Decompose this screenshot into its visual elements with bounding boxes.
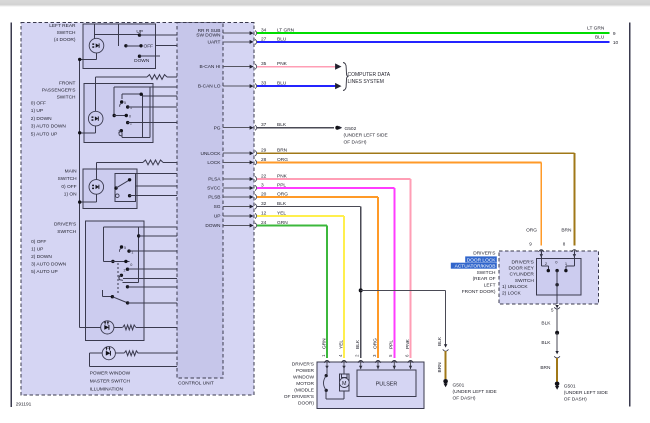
svg-text:1) UP: 1) UP: [31, 246, 43, 252]
wire pin line UP to control unit: [140, 34, 177, 36]
svg-text:LINES SYSTEM: LINES SYSTEM: [348, 79, 384, 85]
svg-text:ACTUATOR/KNOB: ACTUATOR/KNOB: [455, 264, 496, 270]
svg-text:DRIVER'S: DRIVER'S: [473, 250, 495, 256]
master switch common bus wire: [79, 59, 81, 327]
svg-text:DRIVER'S: DRIVER'S: [292, 362, 314, 368]
svg-text:BLK: BLK: [541, 340, 551, 346]
wire pin line drv 5 to control unit: [123, 277, 177, 279]
svg-text:DRIVER'S: DRIVER'S: [512, 259, 534, 265]
svg-text:SVCC: SVCC: [207, 186, 221, 192]
wire DOWN contact stub: [140, 55, 161, 57]
svg-text:0: 0: [130, 263, 132, 267]
svg-text:PG: PG: [214, 125, 221, 131]
wire pin line main 1 to control unit: [115, 173, 177, 175]
wire pin line drv 7 to control unit: [128, 302, 177, 304]
wire LED2 left return: [89, 353, 177, 366]
wire bus to LED1: [80, 326, 101, 328]
svg-text:YEL: YEL: [338, 340, 344, 349]
key cylinder contacts: [541, 251, 574, 304]
svg-text:2) DOWN: 2) DOWN: [31, 116, 52, 122]
wire transistor bottom lead: [96, 53, 98, 59]
node drv contact 2: [126, 268, 129, 271]
svg-text:LEFT REAR: LEFT REAR: [49, 23, 76, 29]
svg-text:BRN: BRN: [437, 362, 443, 373]
door lock actuator dashed box: [499, 251, 599, 304]
hook fp contact 3: [119, 131, 122, 137]
node fp contact 0: [125, 114, 128, 117]
pin 33 BLU B-CAN_LO: [198, 81, 287, 90]
wire YEL pin 12 UP: [257, 216, 344, 358]
svg-text:OF DASH): OF DASH): [344, 139, 367, 145]
wire transistor top lead main: [95, 162, 97, 179]
inner contact frame fp: [114, 87, 150, 137]
LED driver switch illumination: [101, 321, 114, 334]
svg-text:DOOR LOCK: DOOR LOCK: [467, 257, 497, 263]
hook drv contact 3: [119, 275, 123, 280]
connector pin 9 entry: [539, 250, 545, 258]
svg-text:0) OFF: 0) OFF: [61, 184, 76, 190]
label COMPUTER DATA LINES SYSTEM: [348, 72, 391, 85]
svg-text:BLK: BLK: [437, 336, 443, 346]
wire BRN right column: [556, 358, 558, 382]
svg-text:9: 9: [613, 31, 616, 37]
svg-text:COMPUTER DATA: COMPUTER DATA: [348, 72, 391, 78]
svg-text:MOTOR: MOTOR: [296, 381, 314, 387]
pulser unit: [357, 370, 416, 397]
node drv lower contact: [126, 301, 129, 304]
node drv contact 5: [120, 245, 123, 248]
node drv contact 1: [127, 249, 130, 252]
front passenger switch block: [84, 84, 153, 143]
right page border line: [629, 23, 631, 407]
ground G501 right: [555, 382, 560, 390]
svg-text:291191: 291191: [16, 402, 32, 408]
left rear switch block: [83, 24, 156, 68]
svg-text:0: 0: [129, 115, 131, 119]
svg-text:OF DRIVER'S: OF DRIVER'S: [284, 394, 314, 400]
svg-text:SWITCH: SWITCH: [57, 229, 76, 235]
wire pulser pin stubs: [16, 250, 608, 408]
node drv pivot: [111, 260, 114, 263]
svg-text:ORG: ORG: [372, 338, 378, 349]
wire pin4 inside motor block: [343, 367, 345, 375]
wire BLK splice to connector: [556, 333, 558, 353]
svg-text:PPL: PPL: [389, 340, 395, 349]
svg-text:UP: UP: [214, 214, 221, 220]
wire pin line OFF to control unit: [155, 44, 177, 46]
node UP contact: [138, 33, 141, 36]
transistor front passenger switch: [88, 111, 103, 126]
arrow B-CAN HI: [335, 63, 341, 69]
wire pin line drv 6 to control unit: [128, 286, 177, 288]
svg-text:2) LOCK: 2) LOCK: [502, 290, 521, 296]
wire BRN left column: [445, 351, 447, 379]
svg-text:1) UNLOCK: 1) UNLOCK: [502, 284, 528, 290]
svg-text:DOOR KEY: DOOR KEY: [508, 266, 534, 272]
svg-text:BLU: BLU: [595, 34, 605, 40]
wire ORG pin 20 PLSB: [257, 197, 378, 358]
wire pin line main 2 to control unit: [136, 185, 177, 187]
resistor main switch wire: [96, 160, 177, 165]
LED master switch illumination: [102, 347, 115, 360]
node main contact lower: [128, 194, 131, 197]
svg-text:BRN: BRN: [561, 227, 572, 233]
switch arm left rear: [126, 45, 141, 47]
svg-text:PASSENGER'S: PASSENGER'S: [42, 87, 76, 93]
resistor LED1: [114, 325, 177, 330]
inner rect B fp: [122, 94, 143, 137]
svg-text:DRIVER'S: DRIVER'S: [54, 222, 76, 228]
wire PPL pin 3 SVCC: [257, 188, 395, 358]
wire BRN pin 29 UNLOCK: [257, 153, 575, 245]
open contact main off: [116, 194, 120, 198]
wire transistor top lead: [94, 24, 96, 38]
node drv contact 3: [120, 274, 123, 277]
svg-text:SWITCH: SWITCH: [515, 278, 534, 284]
svg-text:POWER: POWER: [296, 368, 315, 374]
node fp contact 5: [120, 100, 123, 103]
transistor main switch: [89, 180, 104, 195]
svg-text:3) AUTO DOWN: 3) AUTO DOWN: [31, 124, 67, 130]
svg-text:G501: G501: [564, 383, 576, 389]
brace computer data lines: [343, 63, 349, 91]
svg-text:OF DASH): OF DASH): [564, 397, 587, 403]
wire pin line fp 4 to control unit: [128, 122, 177, 124]
svg-text:MAIN: MAIN: [65, 169, 78, 175]
svg-text:LEFT: LEFT: [484, 283, 496, 289]
svg-text:LOCK: LOCK: [207, 160, 221, 166]
svg-text:UP: UP: [136, 29, 143, 35]
svg-text:FRONT DOOR): FRONT DOOR): [462, 289, 496, 295]
switch arm main: [116, 180, 130, 188]
svg-text:(UNDER LEFT SIDE: (UNDER LEFT SIDE: [453, 389, 497, 395]
pin 12 YEL UP: [214, 210, 287, 219]
wire pin line drv 1 to control unit: [139, 226, 177, 228]
svg-text:BLK: BLK: [541, 320, 551, 326]
pin 24 GRN DOWN: [205, 220, 288, 229]
pin 29 BRN UNLOCK: [201, 148, 288, 157]
wire pin line fp 3 to control unit: [128, 106, 177, 108]
mechanical link dashed drv: [117, 263, 119, 295]
pin 37 BLK PG: [214, 122, 287, 131]
wire PNK pin 22 PLSA: [257, 179, 411, 358]
wire pin1 inside motor block: [326, 367, 344, 400]
control unit dashed box: [177, 23, 223, 379]
inner contact frame main: [115, 174, 136, 202]
svg-text:UNLOCK: UNLOCK: [201, 151, 222, 157]
pin 35 PNK B-CAN_HI: [199, 61, 287, 70]
wire BLK branch to G501 left: [361, 290, 446, 345]
wire to common bus fp: [80, 132, 96, 134]
wire BLK key cylinder to splice: [556, 309, 558, 333]
wire pin line fp 2 to control unit: [143, 95, 177, 97]
door key cylinder switch box: [536, 259, 581, 296]
svg-text:B-CAN HI: B-CAN HI: [199, 64, 220, 70]
motor M1: [339, 374, 349, 391]
node switch pivot: [124, 44, 127, 47]
label MAIN SWITCH 0) OFF 1) ON: [58, 169, 77, 198]
svg-text:SWITCH: SWITCH: [57, 94, 76, 100]
svg-text:MASTER SWITCH: MASTER SWITCH: [90, 378, 131, 384]
wire pin line drv 4 to control unit: [128, 268, 177, 270]
svg-text:M: M: [342, 381, 347, 387]
wire switch pivot feed: [118, 24, 120, 46]
label DRIVER'S SWITCH: [54, 222, 77, 236]
wire to common bus main: [80, 201, 97, 203]
svg-text:WINDOW: WINDOW: [293, 375, 315, 381]
svg-text:OF DASH): OF DASH): [453, 396, 476, 402]
svg-text:SWITCH: SWITCH: [58, 176, 77, 182]
left page border line: [10, 23, 12, 407]
inner contact frame driver: [104, 227, 139, 282]
node common bus junction main: [78, 200, 81, 203]
svg-text:CYLINDER: CYLINDER: [510, 272, 535, 278]
connector arrows into motor block: [324, 360, 413, 369]
svg-text:SWITCH: SWITCH: [477, 270, 496, 276]
node SG branch: [359, 288, 363, 292]
svg-text:(REAR OF: (REAR OF: [473, 276, 496, 282]
svg-text:(MIDDLE: (MIDDLE: [294, 388, 314, 394]
svg-text:DOWN: DOWN: [205, 223, 221, 229]
resistor LED2: [115, 351, 177, 356]
wire GRN pin 24 DOWN: [257, 226, 327, 359]
svg-text:3) AUTO DOWN: 3) AUTO DOWN: [31, 262, 67, 268]
pin 22 PNK PLSA: [208, 173, 287, 182]
ground G502: [335, 126, 342, 130]
motor brush arc: [324, 374, 328, 392]
svg-text:5: 5: [124, 101, 126, 105]
node fp contact 2: [126, 121, 129, 124]
svg-text:PLSB: PLSB: [208, 195, 220, 201]
transistor left rear switch: [89, 38, 104, 53]
label switch positions driver: [31, 239, 67, 275]
node main pivot: [114, 186, 117, 189]
pin 34 LT GRN SW_DOWN: [196, 28, 294, 39]
svg-text:5) AUTO UP: 5) AUTO UP: [31, 269, 58, 275]
svg-text:2) DOWN: 2) DOWN: [31, 254, 52, 260]
pin 32 BLK SG: [214, 201, 287, 210]
svg-text:PNK: PNK: [405, 338, 411, 349]
label G501 right (UNDER LEFT SIDE OF DASH): [564, 383, 608, 402]
resistor front passenger illumination: [96, 75, 177, 80]
wire BLK pin 32 SG: [257, 207, 361, 359]
svg-text:0) OFF: 0) OFF: [31, 239, 46, 245]
svg-text:GRN: GRN: [321, 338, 327, 349]
label G501 left (UNDER LEFT SIDE OF DASH): [453, 382, 497, 401]
switch arm drv: [104, 260, 130, 262]
svg-text:SG: SG: [214, 204, 221, 210]
connector left column: [443, 344, 449, 351]
svg-text:2: 2: [124, 268, 126, 272]
node fp contact 3: [120, 129, 123, 132]
label switch positions front passenger: [31, 100, 67, 137]
svg-text:(UNDER LEFT SIDE: (UNDER LEFT SIDE: [564, 390, 608, 396]
main switch block: [83, 169, 137, 208]
driver power window motor block: [317, 362, 424, 408]
power window master switch outer dashed box: [21, 23, 254, 396]
svg-text:(4 DOOR): (4 DOOR): [54, 37, 76, 43]
svg-text:5: 5: [124, 246, 126, 250]
svg-text:(UNDER LEFT SIDE: (UNDER LEFT SIDE: [344, 133, 388, 139]
node common bus junction left rear: [78, 58, 81, 61]
svg-text:OFF: OFF: [144, 44, 154, 50]
connector right column: [554, 351, 560, 358]
svg-text:SW DOWN: SW DOWN: [196, 33, 221, 39]
node OFF contact: [139, 44, 142, 47]
wire transistor bottom lead fp: [95, 126, 97, 133]
ground G501 left: [443, 379, 448, 387]
svg-text:SWITCH: SWITCH: [57, 30, 76, 36]
node DOWN contact: [138, 55, 141, 58]
switch arm fp: [114, 115, 126, 117]
node drv contact 0: [124, 260, 127, 263]
svg-text:DOWN: DOWN: [134, 58, 150, 64]
svg-text:PULSER: PULSER: [376, 381, 398, 387]
node common bus junction fp: [78, 131, 81, 134]
pin 20 ORG PLSB: [208, 191, 288, 200]
wire LT GRN pin 34: [257, 32, 610, 34]
node splice right column: [555, 331, 559, 335]
svg-text:ORG: ORG: [526, 227, 537, 233]
label G502 (UNDER LEFT SIDE OF DASH): [344, 126, 388, 146]
svg-text:G502: G502: [345, 126, 357, 132]
switch arm drv lower: [112, 297, 127, 303]
pin 28 ORG LOCK: [207, 157, 288, 166]
svg-text:0) OFF: 0) OFF: [31, 100, 46, 106]
svg-text:FRONT: FRONT: [59, 80, 76, 86]
arrow B-CAN LO: [335, 83, 341, 89]
svg-text:B-CAN LO: B-CAN LO: [198, 84, 221, 90]
svg-text:1) ON: 1) ON: [64, 191, 77, 197]
svg-text:G501: G501: [453, 382, 465, 388]
svg-text:10: 10: [613, 40, 619, 46]
svg-text:UART: UART: [208, 40, 221, 46]
connector pin 5 exit: [554, 305, 560, 309]
label LEFT REAR SWITCH (4 DOOR): [49, 23, 76, 43]
svg-text:LT GRN: LT GRN: [587, 26, 605, 32]
svg-text:CONTROL UNIT: CONTROL UNIT: [178, 381, 214, 387]
pin 27 BLU UART: [208, 36, 287, 45]
svg-text:ILLUMINATION: ILLUMINATION: [90, 387, 124, 393]
wire UP contact feed: [95, 33, 140, 35]
svg-text:BLK: BLK: [355, 339, 361, 349]
node drv contact below frame: [126, 285, 129, 288]
wire PNK pin 35 B-CAN HI: [257, 66, 336, 68]
node fp contact 1: [126, 105, 129, 108]
wire BLU pin 27: [257, 41, 610, 43]
label FRONT PASSENGER'S SWITCH: [42, 80, 76, 100]
driver switch block: [86, 221, 145, 341]
wire ORG pin 28 LOCK: [257, 162, 542, 245]
node drv top junction: [137, 234, 140, 237]
node fp rect B junction: [140, 93, 143, 96]
wire drv lower arm feed: [103, 296, 113, 298]
pin 3 PPL SVCC: [207, 182, 286, 191]
svg-text:POWER WINDOW: POWER WINDOW: [90, 370, 131, 376]
label DRIVER'S POWER WINDOW MOTOR (MIDDLE OF DRIVER'S DOOR): [284, 362, 315, 407]
label POWER WINDOW MASTER SWITCH ILLUMINATION: [90, 370, 131, 392]
wire to common bus: [80, 58, 97, 60]
wire pin line drv 3 to control unit: [129, 250, 177, 252]
wire drv lower pivot stub: [102, 290, 104, 297]
label DRIVER'S DOOR LOCK ACTUATOR/KNOB SWITCH (REAR OF LEFT FRONT DOOR): [451, 250, 497, 294]
wire pin line fp top to control unit: [150, 86, 177, 88]
connector pin 8 entry: [572, 250, 578, 258]
wire BLU pin 33 B-CAN LO: [257, 85, 336, 87]
svg-text:1) UP: 1) UP: [31, 108, 43, 114]
svg-text:BRN: BRN: [540, 365, 551, 371]
svg-text:5) AUTO UP: 5) AUTO UP: [31, 132, 58, 138]
node main contact on: [128, 178, 131, 181]
wire pin line main 3 to control unit: [130, 195, 177, 197]
wire transistor top lead fp: [95, 77, 97, 111]
svg-text:PLSA: PLSA: [208, 177, 221, 183]
label DRIVER'S DOOR KEY CYLINDER SWITCH 1) UNLOCK 2) LOCK: [502, 259, 535, 296]
node fp pivot: [113, 114, 116, 117]
wire transistor bottom lead main: [95, 194, 97, 202]
wire BLK pin 37 PG: [257, 127, 334, 129]
wire pin line drv 2 to control unit: [139, 235, 177, 237]
svg-text:DOOR): DOOR): [298, 401, 314, 407]
node drv lower pivot: [111, 295, 114, 298]
